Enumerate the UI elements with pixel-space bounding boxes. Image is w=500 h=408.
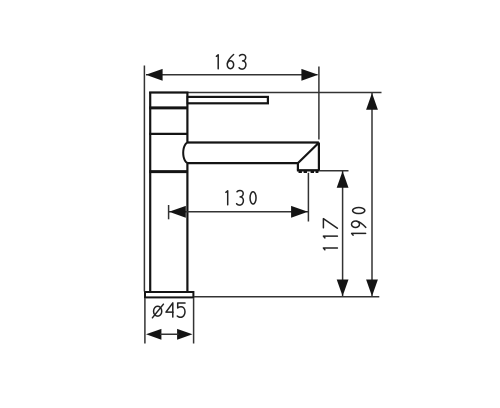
arrowhead 130 right: [291, 206, 308, 218]
handle lever: [187, 97, 268, 103]
dimension line 117: [342, 171, 344, 296]
spout angled cut diagonal: [298, 143, 319, 164]
base extension line left: [144, 299, 146, 344]
left extension line: [143, 66, 145, 292]
cartridge divider thick: [149, 106, 188, 109]
arrowhead 190 up: [366, 93, 378, 110]
aerator left edge: [297, 163, 299, 170]
spout top edge: [188, 141, 319, 143]
aerator bottom edge: [297, 169, 320, 171]
spout bottom edge: [188, 162, 298, 164]
faucet body left edge: [149, 92, 151, 292]
label diameter 45: [152, 303, 185, 318]
arrowhead 190 down: [366, 280, 378, 297]
arrowhead base right: [177, 329, 192, 340]
label 130: [226, 191, 256, 206]
base dimension connector line: [160, 333, 179, 335]
arrowhead base left: [146, 329, 161, 340]
base extension line right: [193, 299, 195, 344]
dimension line 190: [371, 93, 373, 297]
bottom reference line: [194, 296, 379, 298]
body divider line: [149, 133, 188, 135]
label 190 (rotated): [352, 208, 366, 236]
arrowhead 117 down: [337, 280, 349, 297]
reference line 117 top: [320, 170, 349, 172]
base plate: [145, 292, 193, 297]
arrowhead 130 left: [169, 206, 186, 218]
label 117 (rotated): [323, 219, 337, 250]
faucet body right edge lower: [186, 163, 188, 292]
right extension line for 163: [318, 67, 320, 140]
spout rounded left end: [183, 143, 188, 164]
dimension line 163: [146, 74, 318, 76]
dimension line 130: [169, 211, 308, 213]
faucet body right edge upper: [186, 92, 188, 143]
aerator serrations: [299, 171, 319, 173]
spout outlet extension line: [307, 173, 309, 222]
faucet body top edge: [149, 91, 188, 93]
arrowhead 163 left: [146, 69, 163, 81]
body divider thick lower: [149, 170, 188, 173]
arrowhead 117 up: [337, 171, 349, 188]
centerline tick for 130: [168, 205, 170, 219]
spout tip right edge: [318, 143, 320, 171]
arrowhead 163 right: [301, 69, 318, 81]
top reference line to 190 dimension: [189, 92, 382, 94]
label 163: [216, 55, 246, 70]
